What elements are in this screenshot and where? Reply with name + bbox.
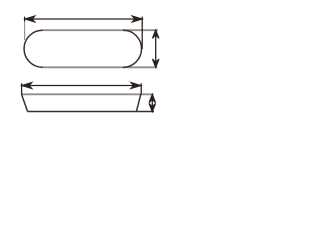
dimension line: [151, 94, 153, 111]
down arrowhead: [149, 103, 156, 111]
height dimension (bottom view, right side): [149, 94, 156, 112]
bottom view: key side elevation: [21, 94, 154, 111]
right slanted end: [136, 94, 140, 111]
length dimension (bottom view): [22, 83, 142, 95]
wire: [24, 30, 158, 67]
left arrowhead: [25, 16, 35, 22]
stadium right arc: [123, 30, 142, 67]
length dimension (top view): [25, 16, 143, 49]
right arrowhead: [132, 16, 142, 22]
stadium bottom edge + right extension line: [42, 66, 158, 68]
bottom edge + right extension: [27, 111, 154, 113]
top edge + right extension: [21, 93, 153, 95]
up arrowhead: [149, 94, 156, 102]
stadium left arc: [24, 30, 43, 67]
left arrowhead: [22, 83, 32, 89]
left extension line: [24, 17, 26, 22]
right extension line: [140, 83, 142, 94]
dimension line: [155, 30, 157, 67]
left extension line: [21, 83, 23, 94]
right arrowhead: [131, 83, 141, 89]
stadium top edge + right extension line: [42, 29, 158, 31]
up arrowhead: [152, 30, 159, 38]
down arrowhead: [152, 59, 159, 67]
left slanted end: [22, 94, 28, 111]
dimension line: [25, 18, 142, 20]
dimension line: [22, 85, 141, 87]
right extension line: [141, 17, 143, 49]
width dimension (top view, right side): [152, 30, 159, 68]
